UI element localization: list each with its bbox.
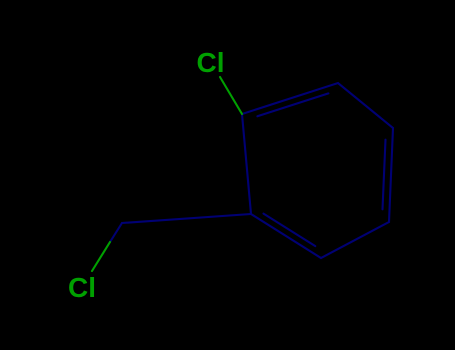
aromatic double bond inner line (right edge) <box>383 140 386 210</box>
carbon half of CH2-Cl bond <box>110 223 122 242</box>
Cl atom labels (green) <box>68 47 225 303</box>
aromatic double bond inner line (top edge) <box>257 93 328 116</box>
aromatic double bond inner line (lower-left edge) <box>264 214 316 247</box>
ring-Cl bond (green) <box>92 77 242 271</box>
svg-text:Cl: Cl <box>68 272 96 303</box>
CH2 to ring bond <box>122 214 251 223</box>
svg-text:Cl: Cl <box>197 47 225 78</box>
benzene ring outline <box>110 83 393 258</box>
